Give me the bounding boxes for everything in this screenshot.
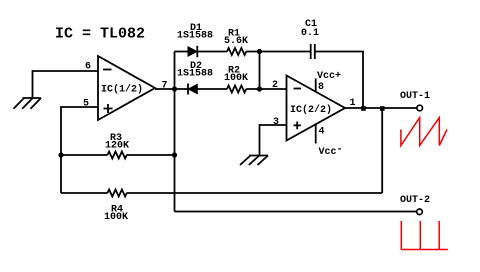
wire D2 cathode to R2: [197, 88, 227, 90]
diode D2 1S1588: [188, 84, 197, 95]
waveform pulses OUT-2: [401, 221, 448, 250]
node R4 feedback junction: [380, 106, 385, 111]
svg-text:Vcc-: Vcc-: [319, 145, 343, 159]
resistor R2 100K: [227, 86, 246, 93]
node R1/C1 junction: [257, 49, 262, 54]
wire pin5 net: [61, 107, 98, 193]
svg-text:IC(1/2): IC(1/2): [101, 84, 143, 96]
svg-text:0.1: 0.1: [301, 28, 319, 39]
svg-text:5.6K: 5.6K: [224, 36, 248, 47]
svg-text:100K: 100K: [104, 212, 128, 223]
resistor R1 5.6K: [227, 48, 246, 55]
pin 4 stub: [315, 124, 317, 143]
resistor R3 120K: [108, 152, 127, 159]
wire pin6 net: [33, 71, 99, 97]
node pin5/R3 junction: [58, 152, 63, 157]
wire vertical junction to pin2: [259, 52, 261, 90]
wire U2 output to OUT-1 terminal: [345, 107, 417, 109]
svg-text:1S1588: 1S1588: [177, 69, 213, 80]
node C1 feedback junction: [361, 106, 366, 111]
wire R2 to U2 pin2: [246, 88, 286, 90]
node pin2 junction: [257, 86, 262, 91]
wire D1 branch top: [175, 51, 189, 53]
terminal OUT-2: [417, 209, 423, 215]
wire C1 right to output node: [315, 52, 363, 109]
svg-text:OUT-2: OUT-2: [400, 195, 430, 206]
terminal OUT-1: [417, 105, 423, 111]
svg-text:OUT-1: OUT-1: [400, 91, 430, 102]
svg-text:120K: 120K: [105, 141, 129, 152]
pin 8 stub: [315, 79, 317, 93]
svg-text:4: 4: [319, 127, 325, 138]
svg-text:8: 8: [318, 82, 324, 93]
wire R3 right lead: [127, 154, 175, 156]
wire vertical pin7 bus: [174, 52, 176, 212]
resistor R4 100K: [108, 190, 127, 197]
svg-text:100K: 100K: [224, 73, 248, 84]
waveform sawtooth OUT-1: [401, 118, 447, 146]
capacitor C1 0.1: [311, 44, 315, 59]
wire R1 to C1 left plate: [246, 51, 310, 53]
diode D1 1S1588: [188, 46, 197, 57]
wire R4 line: [61, 192, 382, 194]
node R3/pin7 junction: [172, 152, 177, 157]
op-amp U1 IC(1/2): [98, 56, 155, 120]
node pin7 junction: [172, 86, 177, 91]
svg-text:3: 3: [273, 117, 279, 128]
svg-text:1S1588: 1S1588: [177, 31, 213, 42]
svg-text:IC(2/2): IC(2/2): [290, 104, 332, 116]
svg-text:2: 2: [272, 80, 278, 91]
op-amp U2 IC(2/2): [287, 76, 346, 141]
svg-text:6: 6: [85, 62, 91, 73]
wire R4 feedback vertical: [381, 108, 383, 193]
ground G2: [240, 156, 268, 166]
wire D1 cathode to R1: [197, 51, 227, 53]
wire R3 left lead: [61, 154, 108, 156]
wire OUT-2 line: [175, 211, 417, 213]
ground G1: [14, 98, 42, 109]
wire U2 pin3 to ground: [260, 125, 287, 155]
svg-text:Vcc+: Vcc+: [317, 71, 341, 82]
wire op-amp1 output to D2 anode: [155, 88, 188, 90]
svg-text:IC = TL082: IC = TL082: [55, 26, 145, 43]
